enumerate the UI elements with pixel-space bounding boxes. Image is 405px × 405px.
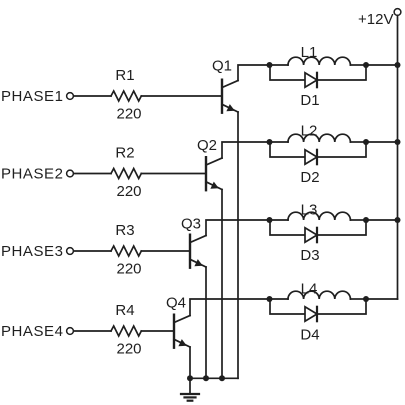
resistor R3 <box>111 246 141 256</box>
wire Q1 collector <box>238 65 270 81</box>
svg-text:220: 220 <box>116 183 141 200</box>
ground <box>181 378 199 400</box>
wire PHASE2 terminal to R2 <box>75 173 111 175</box>
wire Q2 emitter down <box>221 190 223 379</box>
wire Q3 collector <box>206 220 270 236</box>
node junction dot L3 right <box>363 217 369 223</box>
node junction dot rail row3 <box>395 217 401 223</box>
wire PHASE4 terminal to R4 <box>75 330 111 332</box>
wire Q4 emitter down <box>189 347 191 378</box>
resistor R2 <box>111 169 141 179</box>
diode D1 <box>270 68 366 87</box>
transistor Q4 <box>174 315 190 348</box>
node junction dot Q2 collector <box>267 139 273 145</box>
svg-text:Q1: Q1 <box>212 58 232 75</box>
diode D3 <box>270 223 366 242</box>
node junction dot Q1 collector <box>267 62 273 68</box>
svg-text:R3: R3 <box>115 222 134 239</box>
svg-text:R2: R2 <box>115 145 134 162</box>
svg-text:PHASE1: PHASE1 <box>1 88 64 105</box>
transistor Q2 <box>206 157 222 190</box>
diode D2 <box>270 145 366 164</box>
svg-text:Q3: Q3 <box>181 216 201 233</box>
resistor R4 <box>111 326 141 336</box>
wire emitter ground bus <box>190 377 238 379</box>
transistor Q3 <box>190 235 206 268</box>
svg-text:L2: L2 <box>301 123 318 140</box>
wire Q4 collector <box>190 299 270 316</box>
svg-text:PHASE2: PHASE2 <box>1 166 64 183</box>
wire R2 to Q2 base <box>141 173 206 175</box>
node junction dot bus Q2 <box>219 375 225 381</box>
wire L3 to +12V rail <box>366 219 398 221</box>
svg-text:220: 220 <box>116 261 141 278</box>
svg-text:D1: D1 <box>300 92 319 109</box>
wire PHASE3 terminal to R3 <box>75 250 111 252</box>
svg-text:PHASE4: PHASE4 <box>1 323 64 340</box>
wire L4 to +12V rail <box>366 298 398 300</box>
inductor L1 <box>273 57 364 65</box>
svg-text:R4: R4 <box>115 302 134 319</box>
wire R4 to Q4 base <box>141 330 174 332</box>
svg-text:D2: D2 <box>300 169 319 186</box>
svg-text:+12V: +12V <box>358 11 393 28</box>
resistor R1 <box>111 91 141 101</box>
wire Q3 emitter down <box>205 267 207 378</box>
wire L2 to +12V rail <box>366 141 398 143</box>
wire R3 to Q3 base <box>141 250 190 252</box>
svg-text:D4: D4 <box>300 327 319 344</box>
wire L1 to +12V rail <box>366 64 398 66</box>
inductor L2 <box>273 134 364 142</box>
svg-text:PHASE3: PHASE3 <box>1 243 64 260</box>
svg-text:L3: L3 <box>301 202 318 219</box>
node junction dot L4 right <box>363 296 369 302</box>
wire PHASE1 terminal to R1 <box>75 95 111 97</box>
wire Q2 collector <box>222 142 270 158</box>
wire +12V rail <box>397 15 399 299</box>
node junction dot Q4 collector <box>267 296 273 302</box>
svg-text:L4: L4 <box>301 281 318 298</box>
wire Q1 emitter down <box>237 112 239 378</box>
svg-text:Q4: Q4 <box>166 295 186 312</box>
inductor L4 <box>273 291 364 299</box>
terminal PHASE1 <box>67 93 74 100</box>
svg-text:D3: D3 <box>300 247 319 264</box>
svg-text:220: 220 <box>116 106 141 123</box>
node junction dot L2 right <box>363 139 369 145</box>
wire R1 to Q1 base <box>141 95 222 97</box>
inductor L3 <box>273 212 364 220</box>
terminal +12V <box>394 9 401 16</box>
svg-text:220: 220 <box>116 341 141 358</box>
node junction dot rail row2 <box>395 139 401 145</box>
node junction dot bus Q3 <box>203 375 209 381</box>
transistor Q1 <box>222 80 238 113</box>
node junction dot bus Q4 <box>187 375 193 381</box>
svg-text:Q2: Q2 <box>197 137 217 154</box>
node junction dot L1 right <box>363 62 369 68</box>
node junction dot rail row1 <box>395 62 401 68</box>
node junction dot Q3 collector <box>267 217 273 223</box>
diode D4 <box>270 302 366 321</box>
terminal PHASE4 <box>67 328 74 335</box>
terminal PHASE3 <box>67 248 74 255</box>
svg-text:R1: R1 <box>115 67 134 84</box>
terminal PHASE2 <box>67 170 74 177</box>
svg-text:L1: L1 <box>301 44 318 61</box>
